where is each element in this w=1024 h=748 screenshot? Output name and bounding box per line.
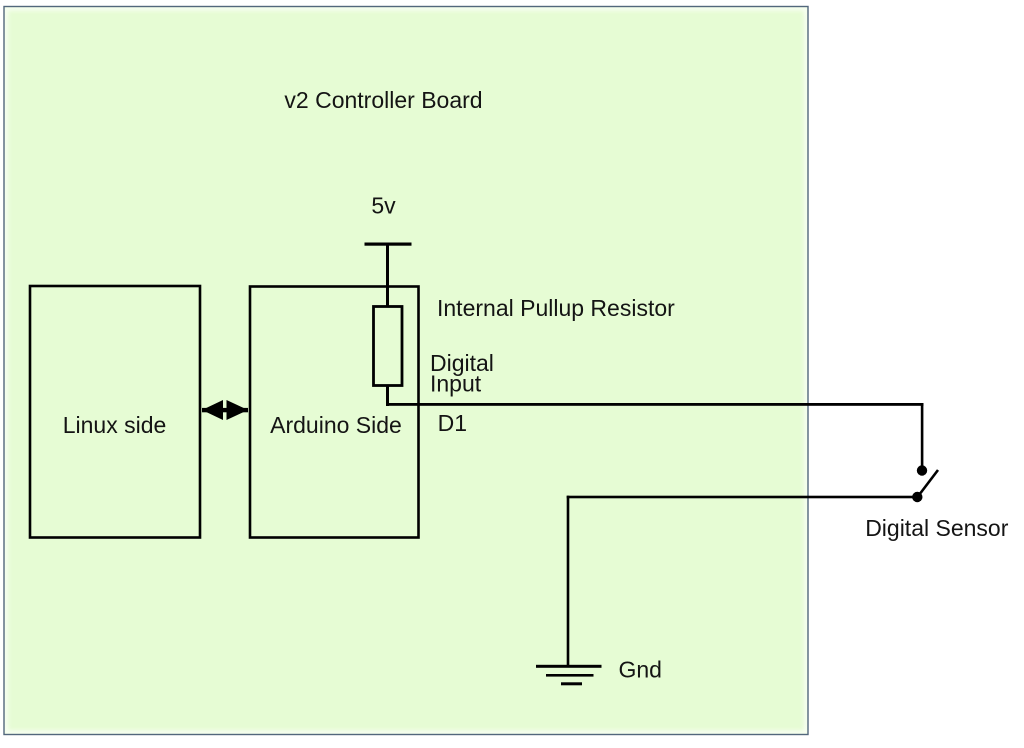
wire sensor vertical drop: [921, 403, 924, 466]
svg-text:v2 Controller Board: v2 Controller Board: [284, 87, 482, 113]
wire resistor bottom to D1 node: [386, 385, 389, 406]
box Arduino Side: [250, 287, 419, 538]
svg-text:Arduino Side: Arduino Side: [270, 412, 402, 438]
controller board outline: [4, 7, 808, 735]
switch bottom contact dot: [912, 492, 922, 502]
wire sensor return horizontal: [567, 496, 918, 499]
wire ground vertical: [567, 496, 570, 666]
ground symbol: [536, 665, 602, 686]
resistor R pullup: [374, 307, 403, 386]
bidirectional arrow between Linux and Arduino: [202, 400, 248, 420]
box Linux side: [30, 286, 200, 538]
switch top contact dot: [917, 465, 927, 475]
svg-text:Input: Input: [430, 370, 482, 396]
wire 5v to resistor: [386, 243, 389, 307]
svg-text:Gnd: Gnd: [619, 657, 662, 683]
wire D1 horizontal run to sensor: [386, 403, 924, 406]
switch lever: [918, 470, 939, 497]
svg-text:Linux side: Linux side: [63, 412, 167, 438]
svg-text:5v: 5v: [371, 193, 396, 219]
svg-text:Digital Sensor: Digital Sensor: [865, 515, 1009, 541]
svg-text:Internal Pullup Resistor: Internal Pullup Resistor: [437, 295, 675, 321]
board border: [4, 7, 808, 735]
board inner edge highlight: [6, 8, 807, 733]
power rail 5v bar: [365, 243, 412, 246]
svg-text:D1: D1: [438, 410, 467, 436]
